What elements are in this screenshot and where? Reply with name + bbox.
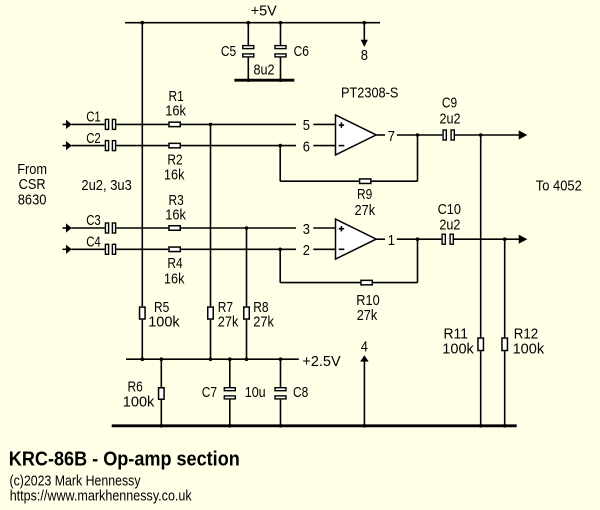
junction +2.5V at C8 [279,357,283,361]
svg-text:27k: 27k [218,314,239,331]
svg-text:8u2: 8u2 [254,61,275,78]
wire op-amp U1A output to pin 7 [376,134,417,136]
svg-text:C8: C8 [293,384,308,401]
svg-text:C10: C10 [438,201,461,218]
svg-text:27k: 27k [357,307,378,324]
wire row 4 input to C4 [72,248,105,250]
copyright line [10,474,142,490]
svg-text:7: 7 [388,128,395,145]
node +5V label [251,3,277,20]
svg-text:100k: 100k [148,314,180,331]
wire R3 to pin 3 [181,227,336,229]
svg-text:C4: C4 [86,234,101,251]
junction op-amp U1A output [416,133,420,137]
pin number 8 [361,47,368,64]
svg-text:https://www.markhennessy.co.uk: https://www.markhennessy.co.uk [10,489,193,505]
wire R3 output column to R8 [246,228,248,359]
resistor R11 [478,338,484,351]
node input arrow row 2 [63,141,72,150]
R2 value 16k [164,167,185,184]
capacitor C6 [275,23,286,80]
wire C9 to output arrow [455,130,527,139]
svg-text:27k: 27k [253,314,274,331]
resistor R1 [169,122,180,127]
C7 label [202,384,217,401]
C7 C8 value 10u [245,384,266,401]
R5 label [154,299,169,316]
C8 label [293,384,308,401]
wire C10 output column down to R12 [504,239,506,426]
wire R4 to pin 2 [181,248,336,250]
wire R2 to pin 6 [181,145,336,147]
C9 value 2u2 [440,110,461,127]
junction R1 output column [209,123,213,127]
capacitor C1 [105,119,115,129]
svg-text:C3: C3 [86,212,101,229]
junction +2.5V at R7 [209,357,213,361]
wire pin 8 supply drop [361,23,368,47]
R9 value 27k [355,202,376,219]
junction feedback tap row 4 [278,248,282,252]
svg-text:8630: 8630 [18,191,47,208]
wire R1 to pin 5 [181,123,336,125]
junction on +5V rail at C5 [247,21,251,25]
wire R6 column [160,359,162,426]
R4 label [167,255,182,272]
capacitor C2 [105,141,115,151]
capacitor C4 [105,244,115,254]
node From CSR 8630 label [17,161,47,208]
resistor R12 [502,338,508,351]
capacitor C10 [442,234,453,244]
wire C2 to R2 [116,145,168,147]
R3 label [169,192,184,209]
R11 value 100k [442,341,474,358]
R12 label [514,325,539,342]
wire C10 to output arrow [454,235,527,244]
wire bias rail column [141,23,143,360]
R3 value 16k [165,206,186,223]
svg-text:3: 3 [303,221,310,238]
svg-text:C1: C1 [86,109,101,126]
svg-text:2u2: 2u2 [440,110,461,127]
capacitor C5 [243,23,254,80]
C1 label [86,109,101,126]
junction ground at pin 4 [363,424,367,428]
svg-text:5: 5 [303,117,310,134]
C9 label [442,95,457,112]
node +2.5V label [302,353,340,370]
svg-text:+2.5V: +2.5V [302,353,340,370]
resistor R6 [159,388,165,400]
C4 label [86,234,101,251]
pin number 7 [388,128,395,145]
svg-text:To 4052: To 4052 [536,178,582,195]
wire pin 7 to C9 [418,134,443,136]
resistor R4 [169,247,180,252]
R8 value 27k [253,314,274,331]
capacitor C8 [275,359,286,426]
svg-text:100k: 100k [123,393,155,410]
svg-text:4: 4 [361,339,368,356]
svg-text:KRC-86B - Op-amp section: KRC-86B - Op-amp section [9,448,240,471]
svg-text:100k: 100k [442,341,474,358]
pin number 1 [388,232,395,249]
junction on +5V rail at bias column [141,21,145,25]
C5 C6 value 8u2 [254,61,275,78]
junction ground at R6 [160,424,164,428]
junction ground at R12 [503,424,507,428]
wire row 3 input to C3 [72,227,105,229]
svg-text:C2: C2 [86,130,101,147]
R9 label [357,186,372,203]
junction +2.5V at R8 [245,357,249,361]
wire pin 1 to C10 [418,238,442,240]
svg-text:10u: 10u [245,384,266,401]
junction +2.5V at C7 [228,357,232,361]
wire pin 4 ground arrow [360,355,369,426]
resistor R3 [169,226,180,231]
svg-text:6: 6 [303,138,310,155]
junction C9 output column [479,133,483,137]
wire +2.5V rail [126,358,299,360]
wire +5V rail [125,22,380,24]
pin number 3 [303,221,310,238]
R12 value 100k [513,341,545,358]
C6 label [294,43,309,60]
junction R3 output column [245,226,249,230]
svg-text:C7: C7 [202,384,217,401]
C10 label [438,201,461,218]
pin number 2 [303,242,310,259]
node input arrow row 3 [63,223,72,232]
R11 label [444,325,469,342]
svg-text:1: 1 [388,232,395,249]
svg-text:2: 2 [303,242,310,259]
svg-text:PT2308-S: PT2308-S [341,85,398,102]
R7 value 27k [218,314,239,331]
svg-text:(c)2023 Mark Hennessy: (c)2023 Mark Hennessy [10,474,142,490]
node input arrow row 1 [63,120,72,129]
op-amp U1B PT2308 [336,219,377,259]
wire C3 to R3 [116,227,168,229]
resistor R2 [169,143,180,148]
R6 value 100k [123,393,155,410]
svg-text:100k: 100k [513,341,545,358]
junction ground at C7 [228,424,232,428]
wire C1 to R1 [116,123,168,125]
node To 4052 label [536,178,582,195]
svg-text:2u2, 3u3: 2u2, 3u3 [81,177,131,194]
wire feedback loop R10 [280,239,417,282]
R10 label [356,292,379,309]
wire row 2 input to C2 [72,145,105,147]
R6 label [128,379,143,396]
node input arrow row 4 [63,245,72,254]
C2 label [86,130,101,147]
pin number 6 [303,138,310,155]
svg-text:2u2: 2u2 [439,217,460,234]
svg-text:16k: 16k [165,206,186,223]
R5 value 100k [148,314,180,331]
svg-text:16k: 16k [164,270,185,287]
junction +2.5V at R6 [160,357,164,361]
url line [10,489,193,505]
junction C10 output column [503,237,507,241]
R1 value 16k [165,103,186,120]
resistor R10 [361,280,372,285]
R1 label [169,88,184,105]
capacitor C7 [224,359,235,426]
svg-text:27k: 27k [355,202,376,219]
wire C9 output column down to R11 [480,135,482,426]
IC label PT2308-S [341,85,398,102]
R8 label [253,299,268,316]
svg-text:16k: 16k [165,103,186,120]
C10 value 2u2 [439,217,460,234]
pin number 5 [303,117,310,134]
svg-text:8: 8 [361,47,368,64]
junction op-amp U1B output [416,237,420,241]
svg-text:C9: C9 [442,95,457,112]
ground bar under C5 C6 [234,78,294,82]
svg-text:C5: C5 [221,43,236,60]
R7 label [218,299,233,316]
R4 value 16k [164,270,185,287]
svg-text:C6: C6 [294,43,309,60]
wire row 1 input to C1 [72,123,105,125]
C5 label [221,43,236,60]
title KRC-86B - Op-amp section [9,448,240,471]
resistor R5 [140,307,146,319]
wire C4 to R4 [116,248,168,250]
C1-C4 value 2u2, 3u3 [81,177,131,194]
junction feedback tap row 2 [278,144,282,148]
op-amp U1A PT2308 [336,115,377,155]
R10 value 27k [357,307,378,324]
C3 label [86,212,101,229]
wire feedback loop R9 [280,135,417,181]
resistor R9 [360,179,371,184]
junction ground at C8 [279,424,283,428]
junction ground at R11 [479,424,483,428]
junction on +5V rail at pin 8 drop [363,21,367,25]
wire ground rail bottom [112,424,517,427]
capacitor C9 [443,130,454,140]
capacitor C3 [105,223,115,233]
R2 label [167,151,182,168]
svg-text:R9: R9 [357,186,372,203]
resistor R7 [208,307,214,319]
svg-text:+5V: +5V [251,3,277,20]
junction +2.5V at R5 [141,357,145,361]
wire R1 output column to R7 [210,124,212,359]
svg-text:16k: 16k [164,167,185,184]
pin number 4 [361,339,368,356]
resistor R8 [244,307,250,319]
junction on +5V rail at C6 [279,21,283,25]
wire op-amp U1B output to pin 1 [376,238,417,240]
